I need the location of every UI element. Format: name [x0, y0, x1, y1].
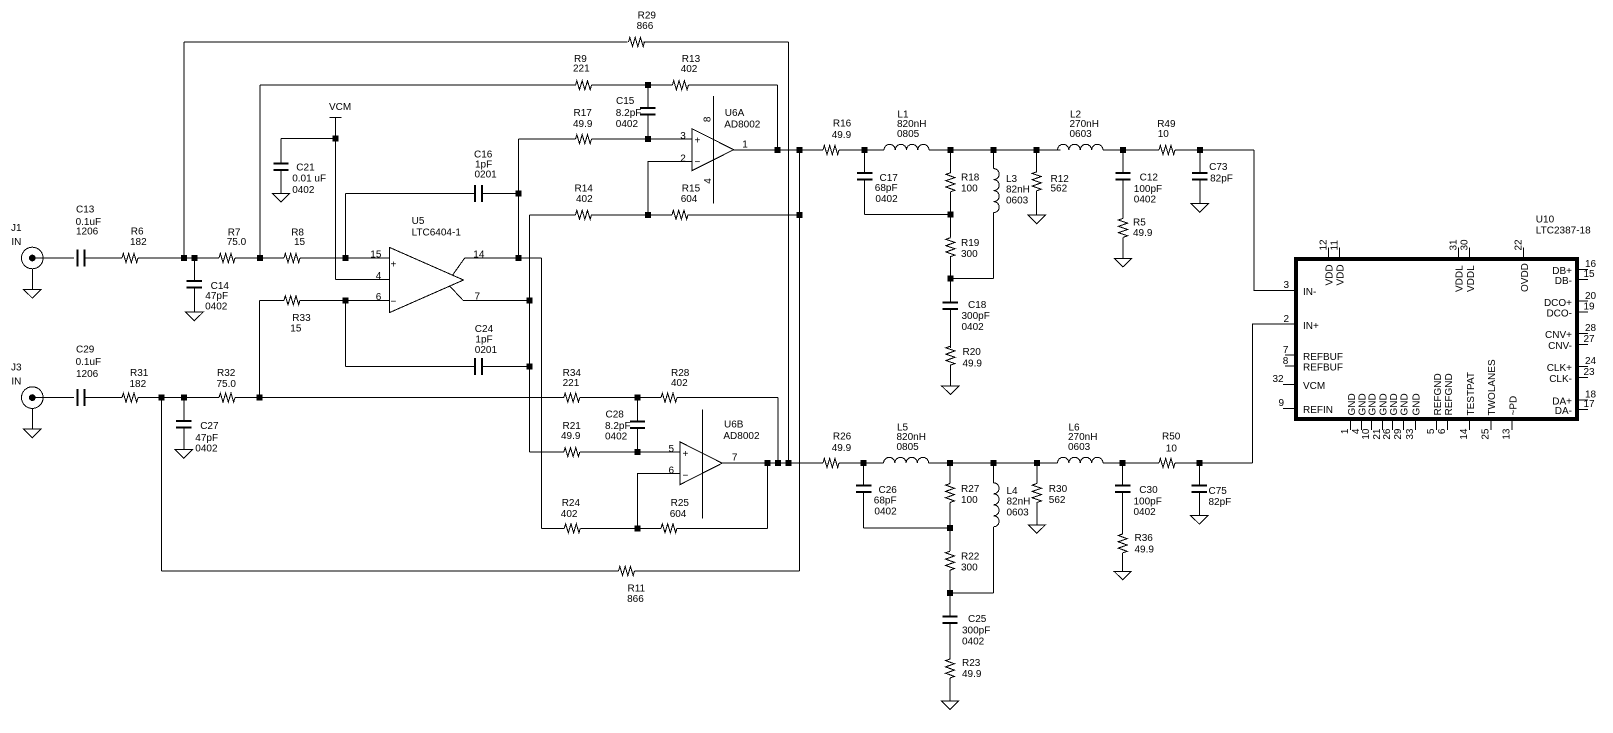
pin 2 IN+ — [1284, 314, 1320, 332]
pin 14 TESTPAT — [1459, 372, 1477, 440]
svg-text:28: 28 — [1585, 323, 1597, 334]
svg-text:100: 100 — [961, 495, 978, 506]
wire node R7/R8 up to R9 — [259, 85, 261, 258]
svg-text:82nH: 82nH — [1006, 185, 1030, 196]
svg-text:47pF: 47pF — [195, 433, 218, 444]
junction feedback at output — [797, 147, 803, 153]
junction pin14 — [516, 255, 522, 261]
svg-text:33: 33 — [1405, 428, 1416, 440]
wire J1 to C13 — [36, 257, 74, 259]
pin 15 DB- — [1555, 269, 1595, 287]
svg-text:CNV+: CNV+ — [1545, 330, 1572, 341]
wire U6B pin 6 — [637, 474, 680, 529]
svg-text:10: 10 — [1166, 444, 1178, 455]
svg-text:R17: R17 — [574, 108, 593, 119]
svg-text:L4: L4 — [1007, 486, 1019, 497]
svg-text:1206: 1206 — [76, 227, 99, 238]
wire J3 node down — [161, 398, 163, 571]
svg-text:C25: C25 — [968, 614, 987, 625]
resistor R15 — [672, 184, 701, 220]
junction R19/L3/C18 — [947, 276, 953, 282]
pin 18 DA+ — [1552, 390, 1596, 408]
svg-text:R13: R13 — [682, 54, 701, 65]
svg-text:U6A: U6A — [725, 108, 745, 119]
svg-text:R31: R31 — [130, 368, 149, 379]
svg-text:0402: 0402 — [875, 194, 898, 205]
svg-text:12: 12 — [1318, 239, 1329, 251]
svg-text:8: 8 — [702, 116, 713, 122]
svg-text:15: 15 — [290, 324, 302, 335]
svg-text:VDD: VDD — [1325, 264, 1336, 285]
junction R12 — [1034, 147, 1040, 153]
svg-text:7: 7 — [732, 453, 738, 464]
ground (C14) — [186, 312, 203, 321]
resistor R34 — [563, 368, 582, 402]
pin 7 stub — [450, 286, 463, 300]
svg-text:+: + — [695, 136, 701, 147]
svg-text:REFGND: REFGND — [1444, 373, 1455, 415]
resistor R29 — [629, 10, 657, 46]
svg-text:0603: 0603 — [1070, 129, 1093, 140]
pin 32 VCM — [1273, 374, 1326, 392]
capacitor C14 — [187, 258, 230, 313]
junction C24 right — [527, 363, 533, 369]
svg-text:0.1uF: 0.1uF — [76, 357, 102, 368]
pin 10 GND — [1361, 393, 1379, 439]
svg-text:3: 3 — [1284, 280, 1290, 291]
svg-text:49.9: 49.9 — [832, 443, 852, 454]
svg-text:VDD: VDD — [1336, 264, 1347, 285]
wire R9 to R13 — [592, 84, 673, 86]
pin 33 GND — [1405, 393, 1423, 439]
svg-text:4: 4 — [376, 271, 382, 282]
svg-text:GND: GND — [1379, 393, 1390, 415]
svg-text:TESTPAT: TESTPAT — [1466, 372, 1477, 416]
svg-text:19: 19 — [1584, 302, 1596, 313]
svg-text:182: 182 — [130, 237, 147, 248]
svg-text:REFIN: REFIN — [1303, 405, 1333, 416]
pin 12 VDD — [1318, 239, 1335, 286]
svg-text:0402: 0402 — [605, 432, 628, 443]
svg-text:5: 5 — [669, 444, 675, 455]
pin 22 OVDD — [1514, 239, 1531, 292]
pin 3 IN- — [1284, 280, 1317, 298]
IC U10 LTC2387-18 — [1296, 215, 1591, 420]
junction R30 — [1034, 460, 1040, 466]
svg-text:C29: C29 — [76, 345, 95, 356]
resistor R28 — [661, 368, 690, 402]
ground (R5) — [1114, 258, 1131, 267]
wire C29 to R31 — [85, 397, 123, 399]
svg-text:C21: C21 — [296, 163, 315, 174]
svg-text:14: 14 — [1459, 428, 1470, 440]
svg-text:DCO-: DCO- — [1546, 309, 1572, 320]
svg-text:402: 402 — [681, 64, 698, 75]
svg-text:L3: L3 — [1006, 174, 1018, 185]
svg-text:R33: R33 — [292, 313, 311, 324]
svg-text:R5: R5 — [1133, 218, 1146, 229]
junction node C27 — [181, 395, 187, 401]
svg-text:49.9: 49.9 — [561, 431, 581, 442]
capacitor C24 — [345, 300, 529, 375]
svg-text:VDDL: VDDL — [1455, 265, 1466, 292]
ground (R20) — [942, 386, 959, 395]
svg-text:0402: 0402 — [292, 185, 315, 196]
svg-text:300: 300 — [961, 249, 978, 260]
capacitor C28 — [605, 398, 645, 453]
op-amp U5 LTC6404-1 — [370, 216, 485, 313]
pin 4 GND — [1351, 393, 1369, 434]
junction node R11 feedback — [159, 395, 165, 401]
wire VCM to C21 — [281, 138, 336, 140]
svg-text:0402: 0402 — [1134, 507, 1157, 518]
svg-text:866: 866 — [637, 21, 654, 32]
resistor R23 — [946, 658, 982, 701]
svg-text:REFGND: REFGND — [1433, 373, 1444, 415]
wire to R9 — [260, 84, 576, 86]
junction L3 top — [991, 147, 997, 153]
junction node R33 — [257, 395, 263, 401]
junction C28 / pin5 — [635, 449, 641, 455]
resistor R24 — [561, 498, 581, 533]
svg-text:AD8002: AD8002 — [723, 431, 760, 442]
junction R34/R28/C28 — [635, 395, 641, 401]
svg-text:7: 7 — [475, 292, 481, 303]
svg-text:DCO+: DCO+ — [1544, 298, 1572, 309]
svg-text:604: 604 — [670, 509, 687, 520]
svg-text:CLK+: CLK+ — [1547, 363, 1572, 374]
wire to R33 — [260, 299, 284, 301]
svg-text:49.9: 49.9 — [1135, 545, 1155, 556]
pin 27 CNV- — [1548, 334, 1595, 352]
svg-text:68pF: 68pF — [875, 183, 898, 194]
svg-text:REFBUF: REFBUF — [1303, 352, 1343, 363]
svg-text:25: 25 — [1480, 428, 1491, 440]
svg-text:6: 6 — [1437, 428, 1448, 434]
capacitor C15 — [616, 85, 656, 139]
svg-text:R30: R30 — [1049, 484, 1068, 495]
resistor R7 — [219, 227, 247, 262]
svg-text:TWOLANES: TWOLANES — [1487, 359, 1498, 415]
svg-text:LTC6404-1: LTC6404-1 — [412, 228, 462, 239]
svg-text:7: 7 — [1283, 345, 1289, 356]
wire U5 OUT- (pin 7) — [463, 299, 530, 301]
svg-text:402: 402 — [576, 194, 593, 205]
resistor R20 — [946, 346, 983, 386]
junction R22/L4/C25 — [947, 590, 953, 596]
junction R18 — [947, 147, 953, 153]
svg-text:14: 14 — [473, 249, 485, 260]
wire R26 to L5 — [839, 462, 884, 464]
svg-text:8.2pF: 8.2pF — [605, 421, 631, 432]
svg-text:0603: 0603 — [1068, 442, 1091, 453]
svg-text:604: 604 — [681, 194, 698, 205]
svg-text:8: 8 — [1283, 356, 1289, 367]
wire R24 to R25 — [580, 527, 661, 529]
svg-text:100pF: 100pF — [1134, 184, 1162, 195]
svg-text:R22: R22 — [961, 552, 980, 563]
junction R28 at output — [775, 460, 781, 466]
wire R31 to R32 — [138, 397, 219, 399]
svg-text:IN: IN — [11, 237, 21, 248]
svg-text:24: 24 — [1585, 356, 1597, 367]
wire to U10 pin 3 — [1254, 150, 1296, 291]
wire R11 right — [635, 570, 800, 572]
wire R14 to R15 — [592, 214, 673, 216]
junction R27 — [947, 460, 953, 466]
svg-text:C15: C15 — [616, 96, 635, 107]
svg-text:R18: R18 — [961, 173, 980, 184]
pin 9 REFIN — [1279, 398, 1334, 416]
capacitor C27 — [176, 398, 219, 455]
svg-text:J3: J3 — [11, 363, 22, 374]
capacitor C12 — [1115, 150, 1162, 218]
svg-text:0402: 0402 — [962, 637, 985, 648]
svg-text:562: 562 — [1051, 183, 1068, 194]
wire R33 vertical — [259, 300, 261, 397]
svg-text:C13: C13 — [76, 205, 95, 216]
junction C12 — [1120, 147, 1126, 153]
svg-text:U6B: U6B — [724, 420, 744, 431]
svg-text:C30: C30 — [1139, 485, 1158, 496]
svg-text:0402: 0402 — [616, 119, 639, 130]
svg-text:9: 9 — [1279, 398, 1285, 409]
resistor R17 — [573, 108, 593, 144]
svg-text:1: 1 — [1340, 428, 1351, 434]
svg-text:C75: C75 — [1209, 486, 1228, 497]
svg-text:−: − — [391, 297, 397, 308]
junction node C14 — [191, 255, 197, 261]
wire bottom to R11 — [162, 570, 619, 572]
svg-text:GND: GND — [1412, 393, 1423, 415]
wire VCM down to U5 pin 4 — [335, 139, 337, 280]
svg-text:R50: R50 — [1162, 432, 1181, 443]
svg-text:49.9: 49.9 — [962, 669, 982, 680]
svg-text:R23: R23 — [962, 658, 981, 669]
wire R25 up to U6B output — [766, 463, 768, 528]
wire U5 OUT+ up to R17 — [518, 139, 520, 258]
junction R27/R22/C26 — [947, 525, 953, 531]
svg-text:3: 3 — [680, 131, 686, 142]
capacitor C16 — [345, 150, 518, 202]
pin 24 CLK+ — [1547, 356, 1597, 374]
inductor L3 — [950, 150, 1030, 279]
svg-text:68pF: 68pF — [874, 495, 897, 506]
svg-text:U10: U10 — [1536, 215, 1555, 226]
resistor R32 — [217, 368, 237, 402]
svg-text:29: 29 — [1393, 428, 1404, 440]
resistor R25 — [661, 498, 689, 533]
svg-text:R19: R19 — [961, 238, 980, 249]
svg-text:0603: 0603 — [1006, 195, 1029, 206]
resistor R13 — [672, 54, 700, 90]
wire R14 left — [530, 214, 576, 216]
svg-text:R25: R25 — [671, 498, 690, 509]
svg-text:VCM: VCM — [329, 102, 351, 113]
svg-text:C28: C28 — [606, 410, 625, 421]
svg-text:82pF: 82pF — [1210, 173, 1233, 184]
svg-text:100pF: 100pF — [1134, 496, 1162, 507]
wire top to R29 — [184, 41, 628, 43]
pin 21 GND — [1372, 393, 1390, 439]
capacitor C73 — [1192, 150, 1233, 204]
junction node R7/R8 — [257, 255, 263, 261]
wire R29 to right vertical — [644, 41, 789, 43]
junction R29 at output — [786, 460, 792, 466]
pin 26 GND — [1382, 393, 1400, 439]
junction pin7 — [527, 297, 533, 303]
junction U5 -IN — [342, 297, 348, 303]
svg-text:13: 13 — [1502, 428, 1513, 440]
svg-text:562: 562 — [1049, 495, 1066, 506]
pin 7 REFBUF — [1283, 345, 1343, 363]
capacitor C17 — [857, 150, 951, 215]
svg-text:10: 10 — [1361, 428, 1372, 440]
junction R18/R19/C17 — [947, 212, 953, 218]
svg-text:300: 300 — [961, 563, 978, 574]
wire U5 OUT+ (pin 14) — [465, 257, 542, 259]
capacitor C18 — [943, 279, 990, 349]
wire C13 to R6 — [84, 257, 122, 259]
svg-text:15: 15 — [370, 249, 382, 260]
ground (R12) — [1028, 215, 1045, 224]
svg-text:47pF: 47pF — [205, 291, 228, 302]
pin 23 CLK- — [1549, 367, 1595, 385]
resistor R26 — [823, 432, 852, 468]
svg-text:20: 20 — [1585, 291, 1597, 302]
wire R28 right — [677, 397, 778, 399]
svg-text:R29: R29 — [638, 10, 657, 21]
wire U6A pin 2 — [648, 161, 692, 215]
ground (C75) — [1191, 516, 1208, 525]
wire R33 to U5 pin 6 — [300, 299, 390, 301]
resistor R50 — [1159, 432, 1181, 468]
svg-text:AD8002: AD8002 — [724, 119, 761, 130]
ground (R23) — [941, 701, 958, 710]
svg-text:6: 6 — [669, 466, 675, 477]
svg-text:0402: 0402 — [195, 444, 218, 455]
svg-text:0402: 0402 — [205, 302, 228, 313]
pin 6 REFGND — [1437, 373, 1455, 434]
ground (R30) — [1028, 525, 1045, 534]
svg-text:10: 10 — [1158, 129, 1170, 140]
pin 11 VDD — [1329, 240, 1346, 286]
inductor L1 — [884, 109, 929, 150]
svg-text:27: 27 — [1584, 334, 1596, 345]
svg-text:49.9: 49.9 — [573, 119, 593, 130]
resistor R33 — [284, 296, 311, 335]
pin 19 DCO- — [1546, 302, 1595, 320]
svg-text:17: 17 — [1584, 399, 1596, 410]
resistor R31 — [122, 368, 149, 402]
resistor R27 — [946, 463, 980, 528]
resistor R30 — [1032, 463, 1067, 525]
svg-text:R11: R11 — [628, 583, 646, 594]
junction R15 to output vertical — [797, 212, 803, 218]
wire R15 right — [688, 214, 800, 216]
svg-text:R20: R20 — [963, 347, 982, 358]
svg-text:31: 31 — [1449, 239, 1460, 251]
wire R50 right — [1175, 462, 1253, 464]
svg-text:CLK-: CLK- — [1549, 374, 1572, 385]
svg-text:23: 23 — [1584, 367, 1596, 378]
junction C75 — [1196, 460, 1202, 466]
ground (J1) — [24, 290, 41, 299]
junction R13 at output — [775, 147, 781, 153]
junction R25 at output — [764, 460, 770, 466]
pin 1 GND — [1340, 393, 1358, 434]
wire R13 down to U6A output — [777, 85, 779, 150]
wire R29 vertical down to U6B output — [788, 42, 790, 463]
svg-text:182: 182 — [130, 379, 147, 390]
resistor R12 — [1032, 150, 1069, 215]
svg-text:221: 221 — [563, 378, 580, 389]
wire R7 to R8 — [235, 257, 284, 259]
wire R21 to U6B pin 5 — [580, 451, 680, 453]
svg-text:LTC2387-18: LTC2387-18 — [1536, 226, 1591, 237]
capacitor C26 — [856, 463, 950, 528]
junction C17 — [862, 147, 868, 153]
junction R9/R13/C15 — [645, 82, 651, 88]
wire R6 to R7 — [138, 257, 219, 259]
svg-text:0402: 0402 — [962, 322, 985, 333]
wire R25 right — [677, 527, 767, 529]
svg-text:−: − — [695, 157, 701, 168]
resistor R16 — [823, 119, 852, 155]
svg-text:R24: R24 — [562, 498, 581, 509]
pin 17 DA- — [1555, 399, 1595, 417]
svg-text:+: + — [683, 449, 689, 460]
svg-text:GND: GND — [1389, 393, 1400, 415]
svg-text:11: 11 — [1329, 240, 1340, 251]
svg-text:26: 26 — [1382, 428, 1393, 440]
svg-text:GND: GND — [1347, 393, 1358, 415]
junction C30 — [1120, 460, 1126, 466]
wire R24 left — [541, 527, 564, 529]
svg-text:32: 32 — [1273, 374, 1285, 385]
svg-text:300pF: 300pF — [962, 625, 990, 636]
resistor R5 — [1119, 218, 1153, 259]
svg-text:R27: R27 — [961, 484, 980, 495]
junction R14/R15 — [645, 212, 651, 218]
junction C16 right — [516, 190, 522, 196]
wire L1 to L2 — [929, 149, 1061, 151]
svg-text:15: 15 — [294, 237, 306, 248]
svg-text:J1: J1 — [11, 223, 22, 234]
svg-text:R36: R36 — [1135, 533, 1154, 544]
svg-text:1206: 1206 — [76, 369, 99, 380]
op-amp U6B AD8002 — [669, 409, 760, 518]
svg-text:CNV-: CNV- — [1548, 341, 1572, 352]
wire R28 down to U6B output — [777, 398, 779, 463]
svg-text:402: 402 — [561, 509, 578, 520]
svg-text:49.9: 49.9 — [1133, 228, 1153, 239]
svg-text:1pF: 1pF — [475, 334, 492, 345]
connector J1 (BNC) — [11, 223, 43, 290]
svg-text:402: 402 — [671, 378, 688, 389]
wire feedback up from J1 node — [183, 42, 185, 258]
wire U6A output — [734, 149, 823, 151]
svg-text:U5: U5 — [412, 216, 425, 227]
inductor L2 — [1058, 109, 1104, 150]
junction C73 — [1197, 147, 1203, 153]
svg-text:−: − — [683, 471, 689, 482]
inductor L5 — [884, 422, 929, 463]
pin 28 CNV+ — [1545, 323, 1597, 341]
wire R13 right — [688, 84, 777, 86]
svg-text:5: 5 — [1426, 428, 1437, 434]
svg-text:866: 866 — [627, 594, 644, 605]
